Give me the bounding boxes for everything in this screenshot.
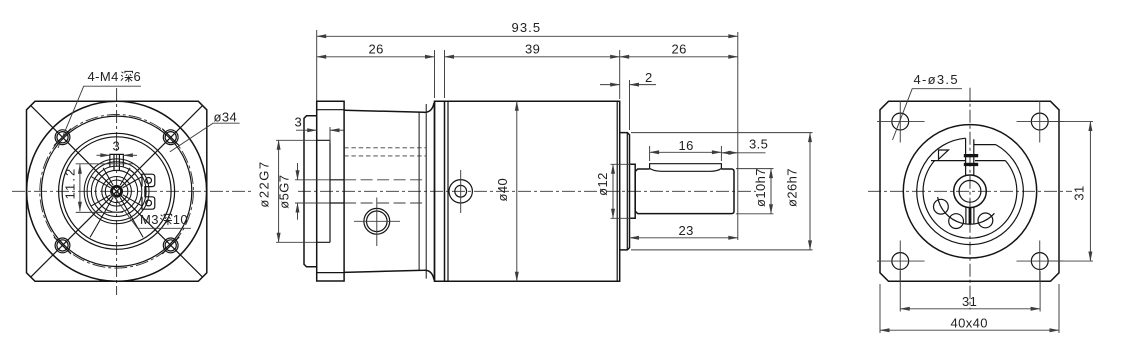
svg-text:40x40: 40x40 xyxy=(951,316,988,331)
svg-text:3: 3 xyxy=(295,115,303,130)
svg-text:ø34: ø34 xyxy=(214,110,238,125)
dimension 93.5 xyxy=(317,20,738,37)
bore D22 top line xyxy=(317,140,330,242)
dimension dia10h7 xyxy=(736,168,774,214)
left chord xyxy=(931,160,966,162)
svg-text:ø10h7: ø10h7 xyxy=(753,168,768,207)
bolt hole M4 bottom-left xyxy=(54,237,71,254)
hidden lines gear bore xyxy=(344,148,426,156)
flange hole top-left xyxy=(877,101,925,143)
bolt circle D34 dash-dot xyxy=(40,115,194,269)
hub circle r29.5 xyxy=(87,162,146,221)
planet circle right xyxy=(978,213,993,228)
lower slot pin xyxy=(969,207,972,224)
svg-text:26: 26 xyxy=(672,42,687,57)
dimension 3 keyway xyxy=(97,139,138,156)
dimension 11.2 xyxy=(63,164,135,213)
boss ring inner xyxy=(62,137,171,246)
dimension 2 xyxy=(600,70,656,85)
clamp slot walls xyxy=(966,138,974,175)
neck fillet edge xyxy=(425,104,427,279)
hub circle r25 xyxy=(91,166,141,216)
flange chamfer edge lines xyxy=(317,110,344,273)
left view vertical centerline xyxy=(116,88,118,295)
planet pitch arc xyxy=(938,197,995,224)
shaft key xyxy=(650,164,722,172)
right flange square outline xyxy=(880,101,1059,281)
svg-text:ø40: ø40 xyxy=(495,178,510,202)
svg-text:ø22G7: ø22G7 xyxy=(257,160,272,207)
dimension 31 bottom xyxy=(900,271,1040,312)
corner diagonal NW-SE xyxy=(31,106,203,277)
dimension 16 key xyxy=(650,138,722,161)
label 4-M4 deep 6 xyxy=(58,69,141,148)
output boss D26h7 xyxy=(620,133,630,250)
hub bore circle xyxy=(959,180,981,202)
dimension 39 xyxy=(445,42,620,57)
svg-text:10: 10 xyxy=(173,212,188,227)
right view horizontal centerline xyxy=(868,190,1072,192)
extension lines top dims xyxy=(317,30,738,240)
hub outer circle xyxy=(954,175,987,208)
dimension 3.5 xyxy=(721,137,768,153)
dimension 26 left xyxy=(317,42,435,57)
svg-text:23: 23 xyxy=(679,223,694,238)
center dark ring xyxy=(112,186,122,196)
corner diagonal NE-SW xyxy=(31,106,203,277)
flange hole bottom-left xyxy=(877,241,925,282)
body screw hole xyxy=(449,170,472,213)
adapter cone end edge xyxy=(418,112,420,270)
flange hole top-right xyxy=(1017,101,1064,143)
dimension 31 vertical xyxy=(1048,122,1093,261)
svg-text:M3: M3 xyxy=(140,212,159,227)
dimension dia26h7 xyxy=(631,133,813,250)
adapter cone top edge xyxy=(344,103,434,112)
right view vertical centerline xyxy=(969,88,971,310)
bore D5 solid lines xyxy=(330,180,344,203)
svg-text:31: 31 xyxy=(962,294,977,309)
svg-text:11.2: 11.2 xyxy=(63,167,78,200)
svg-text:4-ø3.5: 4-ø3.5 xyxy=(914,72,959,87)
svg-text:ø26h7: ø26h7 xyxy=(785,168,800,207)
bore circle r11 xyxy=(105,180,128,203)
bolt hole M4 bottom-right xyxy=(162,237,179,254)
flange hole bottom-right xyxy=(1017,241,1064,282)
flange plate side view xyxy=(317,101,344,281)
pilot boss circle xyxy=(41,116,191,266)
svg-text:31: 31 xyxy=(1072,185,1087,200)
output shaft D10 xyxy=(635,169,734,214)
clamp ring left face xyxy=(434,101,436,281)
keyway slot top xyxy=(110,154,124,170)
label 4-dia3.5 xyxy=(893,72,963,140)
adapter screw hole xyxy=(354,198,400,247)
left view horizontal centerline xyxy=(12,190,252,192)
svg-text:39: 39 xyxy=(525,42,540,57)
body face edge line xyxy=(616,101,618,281)
middle view horizontal centerline xyxy=(298,190,756,192)
dimension dia40 xyxy=(495,101,517,281)
boss ring outer xyxy=(59,133,175,249)
dimension 40x40 xyxy=(880,284,1059,333)
dimension 23 xyxy=(630,223,738,238)
shaft collar D12 xyxy=(630,164,636,218)
svg-text:2: 2 xyxy=(645,70,653,85)
clamp ring inner arc xyxy=(923,161,1017,239)
left flange square outline xyxy=(27,101,207,281)
boss chamfer edge xyxy=(626,133,628,250)
outer circle xyxy=(903,125,1036,258)
svg-text:93.5: 93.5 xyxy=(512,20,542,35)
bolt hole M4 top-left xyxy=(54,129,71,146)
dimension 3 bore depth xyxy=(295,115,344,144)
dimension dia5G7 xyxy=(277,163,330,220)
recess circle with top flat xyxy=(917,138,1024,244)
svg-text:ø5G7: ø5G7 xyxy=(277,175,292,209)
svg-text:26: 26 xyxy=(369,42,384,57)
svg-text:ø12: ø12 xyxy=(595,172,610,196)
planet circle left xyxy=(934,199,949,214)
body chamfer line xyxy=(447,101,449,281)
right chord xyxy=(975,160,1005,162)
ring right face xyxy=(444,101,446,281)
svg-text:6: 6 xyxy=(134,69,142,84)
input pilot boss side view xyxy=(304,116,317,267)
main body outline xyxy=(435,101,620,281)
svg-text:3: 3 xyxy=(113,139,121,154)
label dia34 xyxy=(170,110,240,152)
svg-text:4-M4: 4-M4 xyxy=(88,69,119,84)
lower slot xyxy=(966,207,974,224)
wedge marker triangle xyxy=(939,150,949,159)
body circle D40 xyxy=(27,101,207,281)
label M3 deep 10 xyxy=(111,193,191,229)
hub circle r15 xyxy=(102,177,132,207)
svg-text:16: 16 xyxy=(679,138,694,153)
radial spokes xyxy=(90,168,143,237)
hub circle r21 xyxy=(96,170,138,212)
dimension dia22G7 xyxy=(257,140,317,242)
planet circle middle xyxy=(949,214,964,229)
dimension dia12 xyxy=(595,164,631,218)
dimension 26 right xyxy=(620,42,738,57)
connector tab with two holes xyxy=(142,174,155,209)
bore D5 hidden lines xyxy=(344,180,426,203)
hub circle r32 xyxy=(84,159,149,224)
clamp screw bands xyxy=(964,154,978,157)
bolt hole M4 top-right xyxy=(162,129,179,146)
svg-text:3.5: 3.5 xyxy=(749,137,768,152)
adapter cone bottom edge xyxy=(344,270,434,279)
